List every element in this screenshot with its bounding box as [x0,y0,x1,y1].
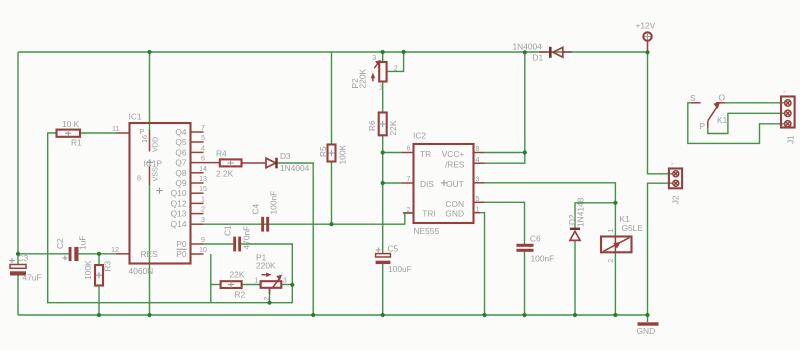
svg-text:IC2: IC2 [413,131,426,141]
svg-text:1: 1 [606,229,615,233]
svg-text:5: 5 [476,194,480,203]
svg-text:Q7: Q7 [175,158,187,168]
svg-text:TRI: TRI [422,209,436,219]
svg-text:47uF: 47uF [23,273,42,283]
svg-text:7: 7 [407,174,411,183]
svg-text:VCC+: VCC+ [442,149,465,159]
wire P1 pin3 to node [281,284,292,286]
wire pin9 to C1 [204,243,234,245]
IC1 power pin VDD 16 [140,127,160,152]
svg-text:100nF: 100nF [531,254,555,264]
IC1 pin 2 Q13 [171,205,205,219]
IC1 pin 5 Q5 [175,133,205,147]
capacitor C3 [9,253,42,283]
svg-text:R4: R4 [216,149,227,159]
svg-text:C5: C5 [388,244,399,254]
svg-text:C1: C1 [223,225,233,236]
svg-text:Q5: Q5 [175,137,187,147]
svg-text:8: 8 [476,144,480,153]
svg-text:470nF: 470nF [242,226,252,250]
IC1 origin cross [147,159,153,165]
IC2 pin 1 GND [445,205,480,219]
svg-text:Q13: Q13 [171,209,187,219]
wire C2 right to pin 12 [79,253,116,255]
IC1 pin 9 P0 [176,235,205,249]
svg-text:TR: TR [420,149,431,159]
IC1 pin 15 Q10 [171,184,207,198]
svg-text:IC1: IC1 [129,112,142,122]
wire top +12V rail [18,51,648,53]
svg-text:3: 3 [372,53,376,62]
svg-text:2: 2 [201,205,205,214]
svg-text:3: 3 [283,276,287,285]
wire R2 left lead [211,284,221,286]
wire R3 top lead [98,254,100,265]
svg-text:1: 1 [255,276,259,285]
wire THR node to IC2 pin6 [383,152,402,154]
svg-text:1uF: 1uF [78,236,88,250]
svg-text:8: 8 [137,174,141,183]
svg-text:O: O [719,93,726,103]
wire pin10 down to R2/P1 net [210,254,212,303]
svg-text:1: 1 [201,194,205,203]
svg-text:R5: R5 [318,146,328,157]
resistor R5 [318,145,348,165]
svg-text:100nF: 100nF [269,191,279,215]
capacitor C5 100uF [376,244,412,275]
svg-text:NE555: NE555 [414,226,440,236]
wire IC2 pin4 to VCC node [485,153,525,164]
wire R5 bottom to Q14 net [331,162,333,225]
svg-text:VSS: VSS [151,167,160,182]
wire pin3 Q14 net to IC2 TRI [204,213,414,224]
svg-text:2.2K: 2.2K [216,169,234,179]
IC1 pin 10 P0 [176,245,207,259]
svg-text:R6: R6 [367,120,377,131]
wire D2 bottom to ground rail [574,241,576,316]
wire IC1 VDD from rail [149,52,151,130]
resistor R4 [204,149,242,179]
wire relay node to D2 top [575,203,615,228]
svg-text:2: 2 [262,297,271,301]
wire IC2 pin5 to C6 [485,202,525,244]
IC1 pin 3 Q14 [171,215,205,229]
wire K1 coil to ground rail [614,252,616,315]
svg-text:22K: 22K [388,120,398,135]
trimmer P2 220K [350,53,398,92]
wire R1 left to bottom net [48,133,293,303]
wire C3 bottom to ground rail [17,275,19,315]
diode D2 1N4148 [567,197,586,240]
wire R4 to D3 [242,162,267,164]
wire switch O to J1 pin1 [725,102,786,104]
svg-text:K1: K1 [717,115,728,125]
svg-text:13: 13 [199,174,207,183]
svg-text:Q4: Q4 [175,127,187,137]
trimmer P1 220K [255,253,287,301]
svg-text:4: 4 [476,155,480,164]
svg-text:1N4148: 1N4148 [576,197,586,227]
svg-text:D1: D1 [533,53,544,63]
svg-text:+12V: +12V [636,21,656,31]
wire IC2 pin8 to VCC node [485,152,525,154]
resistor R2 [221,270,246,300]
svg-text:100K: 100K [83,260,93,280]
wire VCC node up to rail [524,52,526,152]
connector J2 [669,159,682,204]
wire P2 pin3 to rail [382,52,384,62]
IC1 pin 4 Q6 [175,143,205,157]
svg-text:220K: 220K [256,261,276,271]
supply +12V [636,21,656,53]
IC1 pin 6 Q7 [175,154,205,168]
diode D3 1N4004 [266,151,310,173]
svg-text:C4: C4 [251,203,261,214]
wire C2 net from left rail [18,253,69,255]
wire ground rail to GND symbol [647,315,649,322]
IC1 pin 12 RES [111,245,158,259]
svg-text:9: 9 [201,235,205,244]
svg-text:6: 6 [201,154,205,163]
wire R2 to P1 node 1 [242,284,261,286]
wire IC2 pin3 OUT to relay node [485,183,616,203]
wire C5 bottom to ground rail [382,264,384,315]
IC1 pin 14 Q8 [175,164,207,178]
wire relay node to K1 coil [614,203,616,237]
wire bottom ground rail [18,314,648,316]
IC1 power pin VSS 8 [137,159,163,186]
svg-text:3: 3 [476,175,480,184]
resistor R6 [367,113,398,136]
svg-text:15: 15 [199,184,207,193]
relay contact K1 switch [690,93,728,132]
svg-text:Q12: Q12 [171,198,187,208]
svg-text:J2: J2 [671,195,681,204]
wire switch P to J1 pin2 [708,113,786,133]
wire R5 top to rail [331,52,333,145]
wire P1 node up to C1 right [241,244,292,285]
svg-text:4060N: 4060N [129,266,154,276]
capacitor C2 [55,236,88,261]
IC IC2 NE555 box [413,131,474,237]
svg-text:P0: P0 [176,249,187,259]
svg-text:RES: RES [141,249,159,259]
svg-text:Q9: Q9 [175,178,187,188]
wire R6 bottom / DIS / THR column [382,135,384,253]
svg-text:12: 12 [111,245,119,254]
svg-text:22K: 22K [230,270,245,280]
ground GND symbol [637,322,659,336]
svg-text:/RES: /RES [445,160,465,170]
resistor R3 [83,260,113,285]
IC1 pin 1 Q12 [171,194,205,208]
svg-text:Q6: Q6 [175,147,187,157]
capacitor C1 470nF [223,225,252,251]
wire R3 bottom lead [98,286,100,316]
IC2 pin 2 TRI [403,205,436,219]
wire J2 pin 2 to ground [648,183,674,315]
svg-text:IC1P: IC1P [144,159,163,169]
svg-text:C6: C6 [530,234,541,244]
IC1 clock cross marker [156,187,162,193]
svg-text:GND: GND [637,326,656,336]
IC2 pin 7 DIS [402,174,434,189]
wire IC2 pin1 to ground rail [480,213,485,315]
svg-text:R1: R1 [71,138,82,148]
svg-text:P: P [140,127,145,136]
svg-text:Q14: Q14 [171,219,187,229]
svg-text:2: 2 [606,259,615,263]
svg-text:G5LE: G5LE [622,223,644,233]
svg-text:10 K: 10 K [62,119,80,129]
svg-text:11: 11 [112,124,119,133]
svg-text:Q10: Q10 [171,188,187,198]
svg-text:16: 16 [140,135,149,143]
wire D3 cathode to ground rail [276,163,313,315]
svg-text:1N4004: 1N4004 [513,42,543,52]
svg-text:P0: P0 [176,239,187,249]
IC2 pin 8 VCC+ [442,144,485,159]
svg-text:10: 10 [199,245,207,254]
svg-text:3: 3 [201,215,205,224]
IC2 pin 4 /RES [445,155,485,170]
IC1 pin 13 Q9 [175,174,207,188]
diode D1 1N4004 [513,42,573,63]
wire P2 bottom to R6 [382,82,384,113]
svg-text:P: P [700,121,706,131]
wire C6 bottom to ground rail [524,252,526,316]
wire +12V to J2 pin 1 [648,52,674,174]
wire DIS node to IC2 pin7 [383,182,402,184]
svg-text:1: 1 [476,205,480,214]
svg-text:2: 2 [407,205,411,214]
IC1 pin 7 Q4 [175,123,205,137]
connector J1 [781,87,796,144]
svg-text:S: S [690,93,696,103]
IC2 pin 6 TR [402,144,431,159]
svg-text:R3: R3 [103,260,113,271]
resistor R1 [57,119,83,148]
svg-text:J1: J1 [786,135,796,144]
svg-text:100uF: 100uF [388,264,412,274]
wire P2 wiper jog to rail [387,52,404,71]
svg-text:R2: R2 [235,290,246,300]
svg-text:14: 14 [199,164,207,173]
svg-text:GND: GND [445,209,464,219]
svg-text:4: 4 [201,143,205,152]
wire IC1 VSS to ground rail [149,185,151,315]
svg-text:CON: CON [445,199,464,209]
svg-text:Q8: Q8 [175,168,187,178]
svg-text:2: 2 [394,64,398,73]
IC1 pin 11 clock input [112,124,129,133]
svg-text:1N4004: 1N4004 [280,163,310,173]
svg-text:C2: C2 [55,238,65,249]
capacitor C4 100nF [251,191,279,232]
svg-text:220K: 220K [358,69,368,89]
svg-text:7: 7 [201,123,205,132]
svg-text:100K: 100K [338,145,348,165]
wire left rail down to C3 [17,52,19,265]
wire switch S to J1 pin3 [688,103,786,144]
IC2 pin 5 CON [445,194,484,209]
svg-text:OUT: OUT [446,179,464,189]
svg-text:DIS: DIS [420,179,434,189]
relay K1 G5LE coil [601,214,643,263]
capacitor C6 100nF [516,234,554,264]
svg-text:6: 6 [407,144,411,153]
IC IC1 4060N box [129,112,191,277]
IC2 pin 3 OUT [441,175,485,189]
wire P1 wiper down [269,288,271,303]
svg-text:D3: D3 [280,151,291,161]
wire R1 right to pin 11 [80,132,116,134]
svg-text:5: 5 [201,133,205,142]
svg-text:VDD: VDD [151,137,160,152]
svg-text:1: 1 [379,83,383,92]
